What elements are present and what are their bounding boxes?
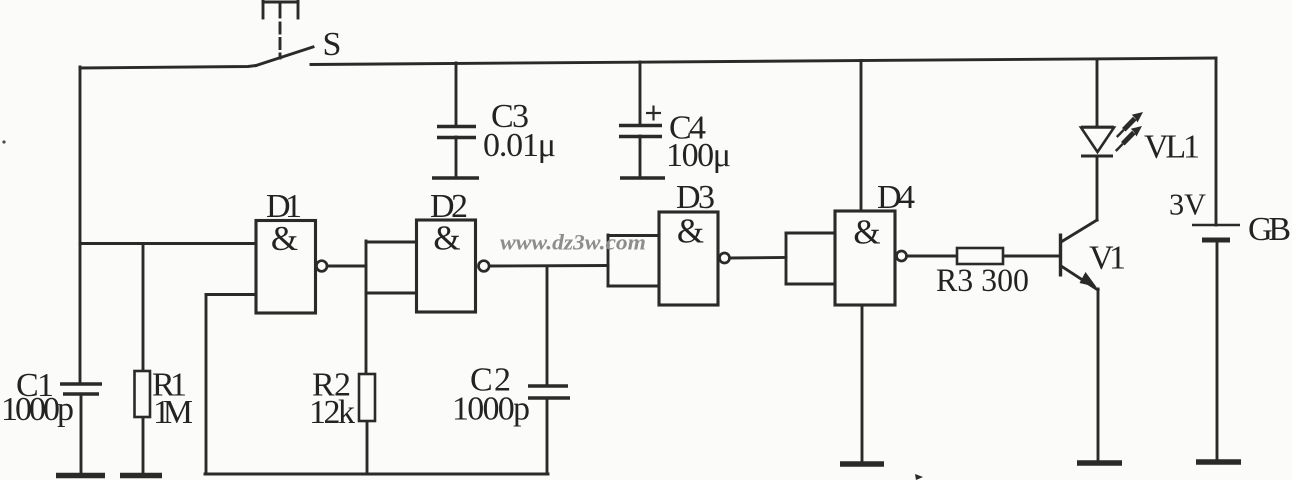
svg-text:100μ: 100μ <box>666 137 731 174</box>
svg-text:S: S <box>323 26 342 63</box>
svg-text:1000p: 1000p <box>1 391 74 428</box>
svg-text:www.dz3w.com: www.dz3w.com <box>500 230 646 255</box>
svg-text:VL1: VL1 <box>1144 129 1200 166</box>
svg-text:D3: D3 <box>676 179 715 216</box>
svg-text:&: & <box>271 219 298 258</box>
svg-text:0.01μ: 0.01μ <box>483 127 556 164</box>
svg-text:&: & <box>433 219 460 258</box>
svg-text:R3 300: R3 300 <box>936 263 1029 299</box>
svg-text:D4: D4 <box>877 179 915 216</box>
svg-text:V1: V1 <box>1089 240 1126 277</box>
svg-text:1000p: 1000p <box>452 391 530 428</box>
svg-text:GB: GB <box>1248 211 1291 248</box>
svg-text:12k: 12k <box>309 394 355 431</box>
svg-text:&: & <box>853 213 880 252</box>
svg-text:1M: 1M <box>153 394 193 431</box>
svg-text:&: & <box>677 212 704 251</box>
svg-text:3V: 3V <box>1169 187 1207 222</box>
